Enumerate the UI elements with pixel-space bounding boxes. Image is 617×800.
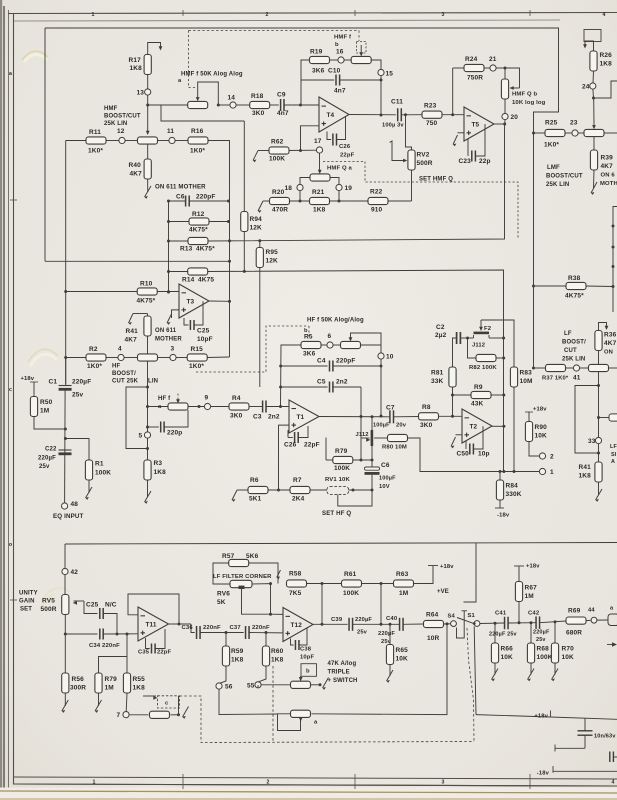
wire R11 to node 12 [106,140,119,142]
svg-text:R69: R69 [568,608,581,615]
resistor R14 [188,268,208,275]
wire R20 to R21 [290,200,310,202]
svg-text:4K75: 4K75 [198,277,214,284]
wire HMF wiper arrow [147,105,149,132]
wire C34 row [65,633,97,635]
wire HF f pot row [148,406,169,408]
hook arrow pot b2 [323,678,329,689]
wire left bus column x65 [65,141,67,386]
wire R25 row [534,132,546,134]
capacitor edge bottom right [609,752,611,763]
svg-text:R59: R59 [231,648,244,655]
node 5 [144,432,150,438]
node junctions x361 [360,415,363,418]
wire node56 down right [219,689,278,714]
wire R59 to node 56 [220,666,227,683]
svg-text:C7: C7 [386,405,395,412]
svg-text:10R: 10R [427,635,440,642]
wire R12 row [169,221,190,223]
node 48 EQ INPUT [62,503,68,509]
svg-text:C25: C25 [86,602,99,609]
wire R19 column x301 [301,60,310,105]
capacitor C10 row [301,79,334,81]
node junction loop bottom [146,447,149,450]
svg-text:N/C: N/C [105,602,117,609]
svg-text:13: 13 [137,90,145,97]
wire T5 output [494,123,505,125]
svg-text:220µF: 220µF [72,379,91,386]
node junction T5 out [503,123,506,126]
wiper strap HMF f pot [198,82,219,105]
wire +18v rail bottom [476,715,551,717]
svg-text:C40: C40 [386,616,398,622]
node junction R10 row left col [167,291,170,294]
svg-text:BOOST/CUT: BOOST/CUT [104,114,141,120]
svg-text:4K75*: 4K75* [196,246,215,253]
svg-text:c: c [9,387,12,393]
wire R79 left up to T1 plus [325,438,327,461]
svg-text:R55: R55 [133,676,146,683]
node 16 [338,57,344,63]
wire R16 right down column x229 [208,141,230,358]
wire node6 to pot [333,344,341,346]
svg-text:ON 6: ON 6 [601,173,616,179]
node junction T1 minus [279,405,282,408]
wire pot to node 11 [157,140,169,142]
wire bracket off page [594,81,617,98]
wire off page bracket right [613,207,617,313]
svg-text:100K: 100K [334,465,350,472]
svg-text:+18v: +18v [534,714,548,720]
wire R2 node down to C1 [65,358,67,385]
ground arrow below R70 [554,663,556,675]
svg-text:HMF Q b: HMF Q b [512,92,538,98]
svg-text:b: b [306,669,310,675]
svg-text:1K8: 1K8 [271,657,284,664]
wire rail y271 R14 row [208,270,504,472]
resistor R16 [188,137,208,144]
svg-text:R62: R62 [271,139,284,146]
svg-text:HMF Q a: HMF Q a [327,166,353,172]
svg-text:1M: 1M [40,408,49,415]
node 41 [573,365,579,371]
wiper arrow b2 [300,676,302,680]
hook arrow T5 plus input [458,132,465,134]
svg-text:ON 611: ON 611 [155,328,177,334]
svg-text:4: 4 [602,12,605,18]
ground arrow below R41 LF [598,482,600,495]
border zone ticks bottom [182,774,184,789]
svg-text:-18v: -18v [497,513,510,519]
svg-text:BOOST/: BOOST/ [562,340,586,346]
wiper arrow HMF Q b pot [505,68,520,88]
wire bottom section top bus [65,543,617,545]
gate arrow J112 [362,437,370,439]
svg-text:10n/63v: 10n/63v [594,734,616,740]
resistor R59 [225,633,227,647]
svg-text:2n2: 2n2 [336,379,348,386]
svg-text:25K LIN: 25K LIN [104,121,127,127]
svg-text:HF f: HF f [158,396,171,402]
wire box left column x168 [168,201,170,292]
resistor R61 [342,580,362,587]
svg-text:R63: R63 [396,571,409,578]
node 7 [123,712,129,718]
node 21 [490,65,496,71]
wire LF pot right off page [608,367,617,369]
svg-text:1K8: 1K8 [130,65,143,72]
svg-text:1K8: 1K8 [231,657,244,664]
svg-text:T4: T4 [327,112,335,119]
node 33 [595,437,601,443]
svg-text:R40: R40 [129,162,142,169]
svg-text:BOOST/CUT: BOOST/CUT [546,174,583,180]
svg-text:1: 1 [92,780,95,786]
svg-text:R67: R67 [525,585,538,592]
op-amp T1 [289,400,319,433]
wire node14 to R18 [236,104,250,106]
node junction T4 minus [299,104,302,107]
svg-text:C3: C3 [253,414,262,421]
ground arrow below R56 [64,693,66,706]
svg-text:100µF: 100µF [379,476,396,482]
svg-text:R1: R1 [95,461,104,468]
svg-text:1K8: 1K8 [313,207,326,214]
wire R23 to T5 [442,114,464,116]
resistor R58 [287,580,307,587]
svg-text:R6: R6 [250,477,259,484]
svg-text:LMF: LMF [547,165,560,171]
wire R24 to node 21 [484,67,490,69]
svg-text:10V: 10V [379,484,390,490]
wire R58 to R61 junction [307,583,342,585]
wire jog to C36 [191,624,195,633]
node 42 [62,568,68,574]
node 10 [378,353,384,359]
node 18 [297,184,303,190]
wire node44 to edge cap [597,619,608,621]
wire LF wiper column [598,372,600,438]
svg-text:220µF 25v: 220µF 25v [489,632,518,638]
resistor R70 [551,643,558,663]
wire R6 R7 RV1 row [232,490,237,500]
svg-text:R90: R90 [535,424,548,431]
resistor R24 [464,64,484,71]
hook arrow above R26 [585,41,594,51]
resistor R63 [394,580,414,587]
svg-text:HMF f 50K Alog Alog: HMF f 50K Alog Alog [181,72,243,78]
svg-text:SI: SI [611,452,617,458]
resistor off page right [599,417,610,419]
svg-text:2: 2 [265,12,268,18]
svg-text:220µF: 220µF [378,631,395,637]
wire bypass loop x126 [126,387,148,449]
node 12 [119,137,125,143]
wire C3 to T1 minus [266,406,289,408]
svg-text:10: 10 [386,354,394,361]
wire R79 row [326,459,333,461]
wire node7 to pot c [129,714,148,716]
node junctions LF column [597,384,600,387]
wire left bus down to rail [44,28,46,261]
page edge left dark strips [0,0,2,800]
wire node12 to pot [125,140,138,142]
resistor R20 [270,197,290,204]
resistor R56 [62,673,69,693]
svg-text:1K0*: 1K0* [190,148,205,155]
svg-text:F2: F2 [484,326,492,332]
wire T11 feedback loop [128,594,179,624]
svg-text:R58: R58 [289,571,302,578]
svg-text:1K0*: 1K0* [189,363,204,370]
svg-text:17: 17 [314,138,322,145]
potentiometer LF boost/cut [589,364,609,371]
svg-text:43K: 43K [471,401,484,408]
node junction bracket [592,97,595,100]
node junction R70 [554,620,557,623]
wire R25 to node 23 [565,132,572,134]
svg-text:10pF: 10pF [197,336,213,343]
resistor R94 [243,121,245,212]
wire R95 down to y387 [259,268,261,388]
resistor R66 [491,643,498,663]
svg-text:C34 220nF: C34 220nF [89,643,120,649]
svg-text:R79: R79 [335,448,348,455]
node junction R59 [225,631,228,634]
svg-text:HF: HF [112,364,120,370]
svg-text:SET: SET [20,607,32,613]
svg-text:16: 16 [336,49,344,56]
svg-text:300R: 300R [70,685,86,692]
svg-text:C50: C50 [457,451,470,458]
resistor R80 [374,437,388,439]
wire R24 row [453,67,464,69]
svg-text:22pF: 22pF [157,650,171,656]
svg-text:R80 10M: R80 10M [382,445,407,451]
svg-text:MOTHER: MOTHER [155,337,182,343]
resistor R41 LF [595,462,602,482]
svg-text:1M: 1M [105,685,114,692]
svg-text:25v: 25v [357,630,368,636]
svg-text:2: 2 [550,454,554,461]
svg-text:C25: C25 [197,328,210,335]
svg-text:20v: 20v [396,423,407,429]
wire R70 column [554,622,556,643]
svg-text:CUT 25K: CUT 25K [112,379,139,385]
node junctions wiper column [146,386,149,389]
capacitor C11 electrolytic [397,108,399,121]
svg-text:4K75*: 4K75* [565,293,584,300]
resistor R17 [144,55,151,75]
svg-text:C23: C23 [459,158,472,165]
wire RV6 right junction [252,583,271,585]
capacitor C26 T1 feedback [287,430,289,438]
svg-text:S4: S4 [448,614,456,620]
svg-text:R12: R12 [192,211,205,218]
wire node55 to pot b2 [257,685,259,688]
node junction R60 [265,631,268,634]
svg-text:R94: R94 [250,216,263,223]
switch S4 lever [457,618,474,624]
svg-text:750R: 750R [467,75,483,82]
capacitor 220p across HF f [148,426,159,428]
wire T3 output [209,300,230,302]
potentiometer HF boost/cut 25K [138,354,158,361]
svg-text:20: 20 [511,114,519,121]
svg-text:R61: R61 [344,571,357,578]
svg-text:11: 11 [167,128,174,135]
supply +18v top [428,565,438,567]
dashed box c [158,696,180,708]
wire C6 row [169,200,186,202]
wire rail y240 R13 row [208,128,505,241]
svg-text:R24: R24 [465,56,478,63]
resistor R18 [250,101,270,108]
op-amp T11 [138,607,169,641]
hook arrow R20 left [258,201,263,211]
potentiometer c gang [150,711,170,718]
wire RV6 wiper down [242,589,271,614]
node 56 [216,683,222,689]
svg-text:T11: T11 [146,621,157,628]
svg-text:T12: T12 [291,622,303,629]
svg-text:R22: R22 [370,189,383,196]
wire C39 to C40 [353,623,400,625]
wire HF wiper column [147,361,149,432]
svg-text:R17: R17 [129,57,142,64]
wire R37 to node 41 [566,367,574,369]
wire pot b right down to node 15 [371,60,381,69]
node 44 [591,617,597,623]
wire C5 down x361 [360,387,362,460]
wire R55 column [126,634,128,673]
resistor R11 [86,137,106,144]
dashed gang link HF f [177,394,179,401]
resistor R36 [595,331,602,351]
wire C1 to EQ input [64,391,67,503]
wire R63 to +18v [414,566,434,584]
resistor R6 [248,486,268,493]
svg-text:R39: R39 [601,155,614,162]
svg-text:1M: 1M [525,593,534,600]
wire node4 to pot [124,357,138,359]
svg-text:R3: R3 [154,460,163,467]
capacitor C38 T12 feedback [291,639,294,646]
svg-text:R70: R70 [562,646,575,653]
svg-text:220µF: 220µF [533,630,550,636]
resistor R69 [566,617,586,624]
svg-text:42: 42 [71,569,79,576]
node junctions C6 row [167,200,170,203]
ground arrow below R68 [530,663,532,675]
wire R7 to RV1 [310,489,327,491]
wire -18v rail bottom [552,766,554,773]
wire C9 to T4 input [284,104,319,106]
dashed gang link b [357,42,367,54]
switch S1 [474,621,480,627]
wire pot a left to node 18 [300,178,310,185]
svg-text:48: 48 [71,501,79,508]
switch S4 [451,621,457,627]
resistor R64 [424,620,444,627]
node junctions x381 [380,365,383,368]
svg-text:ON 611 MOTHER: ON 611 MOTHER [155,184,206,191]
resistor R4 [229,403,249,410]
svg-text:33K: 33K [431,378,444,385]
capacitor edge cut [608,614,617,626]
svg-text:7K5: 7K5 [289,590,302,597]
ground arrow below R65 [389,665,391,677]
svg-text:10K: 10K [562,654,575,661]
svg-text:1K8: 1K8 [133,685,146,692]
paper blemish arc lower-left [40,588,70,613]
svg-text:21: 21 [489,56,497,63]
wire R2 row [66,357,86,359]
wire junction down to T12 minus [270,584,272,615]
svg-text:330K: 330K [506,491,522,498]
wire T2 output [492,425,504,427]
node junctions x381 top [380,79,383,82]
node junctions C34 row [116,633,119,636]
svg-text:750: 750 [426,120,438,127]
op-amp T4 [319,97,349,132]
wire R22 to RV2 column [388,200,412,202]
wire T4 output row [349,114,396,116]
node 17 [316,147,322,153]
wire R57 left down [213,563,230,584]
border frame inner bottom [14,777,617,779]
resistor R23 [422,111,442,118]
svg-text:T2: T2 [470,423,478,430]
svg-text:220p: 220p [167,430,182,437]
svg-text:R15: R15 [191,346,204,353]
wire pot down to node 20 [504,99,506,113]
svg-text:SET HMF Q: SET HMF Q [419,177,453,183]
wire C36 to C37 [200,632,244,634]
svg-text:R37 1K0*: R37 1K0* [542,376,569,382]
wire R67 column [518,601,520,623]
wire R82 row [468,338,477,358]
wire node16 to pot b [344,59,352,61]
node junctions R12 row [167,220,170,223]
capacitor C6 electrolytic [371,460,373,467]
wire node9 to R4 [211,406,229,408]
capacitor C6 220pF [185,196,187,207]
wire R79 right [353,459,372,461]
svg-text:1K0*: 1K0* [87,363,102,370]
svg-text:9: 9 [205,395,209,402]
hook arrow T3 plus input [172,310,180,318]
wire node3 to R15 [176,357,187,359]
wire pot to node 3 [157,357,170,359]
wire R82 right [496,357,504,359]
capacitor C39 electrolytic [348,618,350,631]
svg-text:3: 3 [441,780,444,786]
svg-text:18: 18 [285,185,293,192]
svg-text:HF f 50K Alog/Alog: HF f 50K Alog/Alog [307,318,364,324]
svg-text:+18v: +18v [21,376,35,382]
resistor R25 [545,129,565,136]
svg-text:S1: S1 [468,613,476,619]
wire pot right to node 9 [188,406,204,408]
svg-text:220pF: 220pF [336,358,356,365]
svg-text:C36: C36 [182,625,194,631]
svg-text:C1: C1 [49,379,58,386]
resistor R65 [389,624,391,644]
svg-text:LF: LF [610,444,617,450]
hook arrow pot c right [183,707,189,718]
wire pot a right to node 19 [330,178,339,185]
